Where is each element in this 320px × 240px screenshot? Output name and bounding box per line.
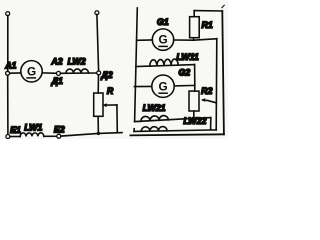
R2 arrow wire from inner rail: [203, 100, 216, 103]
R1 bottom lead: [193, 38, 195, 40]
resistor R2: [189, 91, 199, 111]
junction dot: [97, 132, 100, 135]
outer bottom wire: [130, 134, 224, 135]
wire G2 right: [174, 84, 195, 87]
inner right rail: [215, 39, 218, 130]
outer right rail: [222, 11, 224, 134]
svg-text:R2: R2: [201, 86, 212, 96]
wire R bottom lead: [97, 116, 99, 133]
node E2: [57, 134, 61, 138]
arrowhead: [102, 103, 107, 107]
svg-text:G2: G2: [178, 67, 190, 77]
node A1: [6, 71, 10, 75]
wire A1 to G: [10, 72, 21, 74]
wire G2 left: [134, 85, 151, 87]
top wire: [194, 10, 222, 12]
svg-text:Д1: Д1: [51, 76, 63, 86]
junction R2 lead: [193, 117, 196, 120]
wire row corner down to G2 wire and R2: [194, 65, 196, 92]
svg-text:LW11: LW11: [176, 52, 198, 62]
svg-text:E1: E1: [10, 125, 21, 135]
svg-text:LW22: LW22: [183, 116, 206, 126]
arrowhead R2: [201, 98, 205, 102]
svg-text:R: R: [107, 86, 114, 96]
terminal top-right of left circuit: [95, 11, 99, 15]
resistor R: [94, 93, 103, 116]
svg-text:E2: E2: [54, 125, 65, 135]
svg-text:R1: R1: [202, 20, 213, 30]
wire left rail lower: [7, 75, 9, 134]
svg-text:G: G: [27, 64, 36, 78]
wire G to node D1: [43, 72, 57, 74]
svg-text:G1: G1: [157, 17, 169, 27]
coil row LW11 baseline: [136, 65, 195, 67]
wire down from LW21 row to bottom: [210, 118, 212, 130]
right circuit left rail: [135, 8, 138, 122]
svg-text:A1: A1: [4, 61, 16, 71]
left hook of bottom row: [133, 129, 135, 132]
svg-text:LW21: LW21: [143, 103, 166, 113]
coil LW1: [20, 133, 44, 137]
svg-text:LW1: LW1: [24, 122, 42, 132]
wire left rail upper: [7, 16, 9, 72]
bottom coil row baseline LW22: [134, 130, 216, 132]
R2 bottom lead: [193, 111, 195, 118]
generator G (left machine): [21, 61, 42, 82]
wire loop right of R: [116, 105, 118, 133]
coil LW21: [141, 116, 168, 122]
wire D1 to D2 baseline: [61, 72, 97, 74]
wire G1 left: [137, 39, 153, 41]
coil LW11: [150, 59, 178, 66]
node E1 end: [6, 135, 10, 139]
tick mark top right: [222, 5, 224, 7]
wire D2 down to R: [97, 75, 99, 93]
svg-text:Д2: Д2: [100, 70, 112, 80]
svg-text:G: G: [159, 33, 168, 47]
node D2: [97, 71, 101, 75]
generator G2: [152, 75, 174, 97]
bottom wire right sloping: [61, 133, 122, 137]
wire LW21 row baseline: [135, 118, 211, 122]
svg-text:LW2: LW2: [68, 56, 86, 66]
generator G1: [152, 29, 173, 50]
coil LW22: [141, 127, 167, 132]
wire G1 right to R1 and inner rail: [174, 39, 217, 41]
svg-text:A2: A2: [50, 57, 62, 67]
coil LW2: [66, 69, 89, 73]
rheostat arrow wire: [105, 104, 117, 106]
bottom wire mid: [44, 135, 57, 137]
R1 top stub: [193, 11, 195, 17]
svg-text:G: G: [159, 79, 168, 93]
node D1: [57, 71, 61, 75]
wire terminal2 down to D2: [97, 14, 99, 71]
bottom wire left: [10, 136, 20, 138]
resistor R1: [190, 17, 200, 38]
terminal top-left: [6, 12, 10, 16]
